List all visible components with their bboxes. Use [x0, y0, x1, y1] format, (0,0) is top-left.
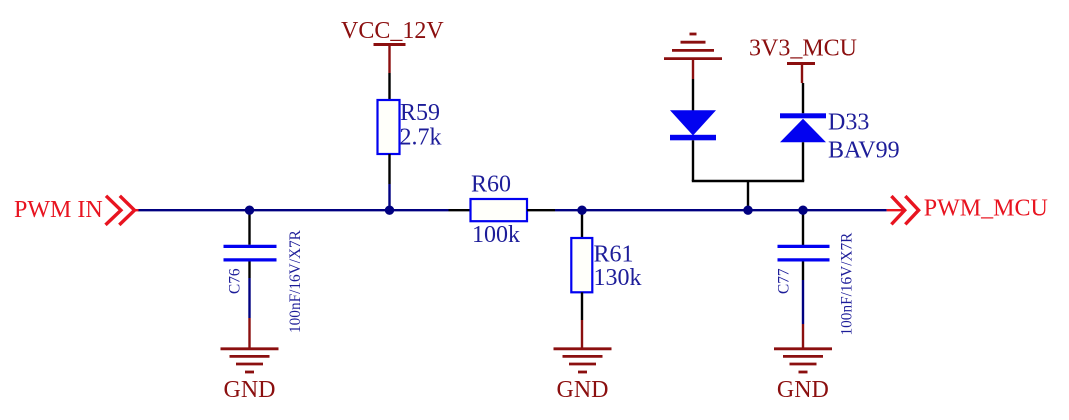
- wire signal right segment: [555, 209, 887, 211]
- svg-text:3V3_MCU: 3V3_MCU: [749, 35, 857, 61]
- svg-text:VCC_12V: VCC_12V: [341, 18, 444, 44]
- port PWM_MCU stub: [887, 209, 903, 211]
- svg-text:2.7k: 2.7k: [400, 125, 442, 151]
- wire node to C76: [248, 210, 250, 245]
- wire R59 bottom pin: [388, 154, 390, 184]
- power 3V3_MCU stub: [801, 64, 803, 84]
- svg-text:BAV99: BAV99: [828, 138, 900, 164]
- svg-text:GND: GND: [224, 377, 276, 403]
- wire R59 top pin: [388, 73, 390, 100]
- power VCC_12V bar: [374, 43, 406, 46]
- wire C77 bottom pin: [802, 262, 804, 281]
- ground stub C76: [248, 318, 250, 349]
- ground symbol C76: [221, 349, 279, 372]
- wire signal left segment: [139, 209, 449, 211]
- svg-text:GND: GND: [557, 377, 609, 403]
- svg-text:130k: 130k: [594, 265, 642, 291]
- wire C77 to gnd: [802, 280, 804, 324]
- wire C76 bottom pin: [248, 262, 250, 279]
- svg-text:C77: C77: [776, 268, 793, 294]
- wire node to R61: [581, 210, 583, 238]
- svg-text:100k: 100k: [472, 222, 520, 248]
- svg-text:R60: R60: [471, 171, 511, 197]
- junction node R59 branch: [385, 206, 394, 215]
- ground symbol inverted above D33: [664, 34, 722, 59]
- capacitor C76: [224, 246, 277, 260]
- resistor R59: [378, 100, 400, 154]
- wire node to C77: [802, 210, 804, 245]
- svg-text:GND: GND: [777, 377, 829, 403]
- port PWM IN chevron: [106, 196, 140, 225]
- power 3V3_MCU bar: [787, 62, 815, 65]
- wire R60 left pin: [449, 209, 471, 211]
- wire diode D33b bottom: [802, 142, 804, 181]
- diode D33b: [780, 113, 826, 142]
- wire gnd to diode D33a: [692, 79, 694, 111]
- ground stub R61: [581, 320, 583, 349]
- wire diode D33a bottom: [692, 140, 694, 181]
- junction node C77 branch: [798, 206, 807, 215]
- wire R60 right pin: [527, 209, 555, 211]
- wire connector drop to node: [747, 181, 749, 210]
- junction node D33 branch: [743, 206, 752, 215]
- svg-text:100nF/16V/X7R: 100nF/16V/X7R: [839, 232, 856, 336]
- svg-text:R61: R61: [594, 241, 634, 267]
- svg-text:C76: C76: [227, 268, 244, 294]
- capacitor C77: [778, 246, 830, 260]
- resistor R61: [571, 238, 592, 292]
- svg-text:100nF/16V/X7R: 100nF/16V/X7R: [287, 229, 304, 333]
- svg-text:PWM IN: PWM IN: [14, 197, 103, 223]
- port PWM_MCU chevron: [891, 196, 918, 224]
- wire R59 to node: [388, 184, 390, 210]
- resistor R60: [471, 199, 528, 221]
- ground symbol C77: [774, 349, 832, 372]
- diode D33a: [670, 110, 716, 140]
- ground stub inverted: [692, 59, 694, 79]
- junction node R61 branch: [577, 206, 586, 215]
- wire R61 bottom pin: [581, 292, 583, 320]
- wire C76 to gnd: [248, 278, 250, 318]
- ground stub C77: [802, 324, 804, 349]
- junction node C76 branch: [245, 206, 254, 215]
- svg-text:R59: R59: [400, 100, 440, 126]
- svg-text:D33: D33: [828, 110, 869, 136]
- wire 3V3 to diode D33b: [802, 83, 804, 113]
- power VCC_12V stub: [388, 45, 390, 74]
- svg-text:PWM_MCU: PWM_MCU: [924, 195, 1048, 221]
- wire diode common connector: [692, 180, 804, 182]
- ground symbol R61: [554, 349, 612, 372]
